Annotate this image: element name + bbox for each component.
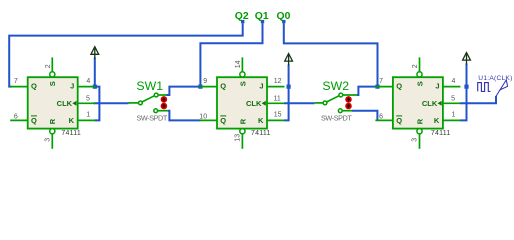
- SW1 pole contact: [139, 101, 143, 105]
- SW1 pole lead: [129, 102, 139, 104]
- svg-text:2: 2: [412, 64, 419, 68]
- svg-text:1: 1: [452, 111, 456, 118]
- U2:A pin K stub: [267, 119, 285, 121]
- power terminal for U1 (VCC arrow): [91, 47, 99, 59]
- flip-flop U1:A (74111): [375, 57, 460, 148]
- wire Q1 net: FF2 Q to terminal Q1: [200, 23, 262, 86]
- U1:B pin Q stub: [10, 86, 28, 88]
- U1:B pin K stub: [78, 119, 96, 121]
- wire SW2 bottom contact to FF3 Q-bar (pin 6): [352, 111, 377, 121]
- U1:A body: [393, 77, 443, 128]
- wire VCC to FF2 J/K: [284, 65, 289, 121]
- SW1 actuator up: [161, 96, 168, 103]
- U1:B pin S stub (active low): [51, 57, 53, 71]
- wire SW1 bottom contact to FF2 Q-bar (pin 10): [168, 111, 201, 121]
- svg-text:Q: Q: [220, 81, 226, 90]
- wire SW1 top contact to FF2 Q (pin 9): [167, 87, 201, 95]
- svg-text:R: R: [48, 118, 57, 124]
- svg-text:Q: Q: [220, 116, 226, 125]
- junction VCC-J FF2: [287, 85, 291, 89]
- wire Q0 net: FF3 Q to terminal Q0: [284, 23, 378, 86]
- SW2 top contact: [339, 93, 343, 97]
- switch SW1 (SW-SPDT): [129, 79, 168, 123]
- U2:A pin S stub (active low): [241, 57, 243, 71]
- power terminal for FF3 (VCC arrow): [463, 53, 471, 65]
- clock generator U1:A(CLK): [478, 75, 513, 96]
- svg-text:Q: Q: [31, 81, 37, 90]
- generator pointer triangle: [500, 80, 508, 90]
- svg-text:6: 6: [379, 113, 383, 120]
- svg-text:R: R: [415, 118, 424, 124]
- svg-text:S: S: [48, 81, 57, 86]
- U1:A pin CLK stub: [443, 102, 461, 104]
- svg-text:5: 5: [86, 95, 90, 102]
- junction Q1 net at FF2 pin 9: [198, 85, 202, 89]
- U1:B body: [28, 77, 78, 128]
- svg-text:CLK: CLK: [57, 99, 73, 108]
- svg-text:K: K: [69, 116, 75, 125]
- U1:A pin R stub (active low): [417, 129, 422, 134]
- SW2 actuator down: [345, 103, 352, 110]
- wire VCC to FF3 J/K: [460, 64, 467, 121]
- svg-text:Q0: Q0: [277, 11, 291, 22]
- svg-text:S: S: [415, 81, 424, 86]
- svg-text:74111: 74111: [61, 130, 80, 137]
- svg-text:Q: Q: [396, 81, 402, 90]
- flip-flop U1:B (74111): [10, 57, 95, 148]
- U1:A pin Q stub: [375, 86, 393, 88]
- junction VCC-J U1: [93, 85, 97, 89]
- svg-text:SW-SPDT: SW-SPDT: [137, 113, 168, 122]
- junction Q0 net at FF3 pin 7: [375, 85, 379, 89]
- wire FF3 CLK to generator: [460, 96, 496, 103]
- terminal Q0: [277, 11, 291, 23]
- SW2 pole lead: [315, 102, 323, 104]
- generator pointer line: [496, 90, 500, 97]
- svg-text:R: R: [238, 118, 247, 124]
- U2:A body: [217, 77, 267, 128]
- U2:A pin R stub (active low): [240, 129, 245, 134]
- junction VCC-J FF3: [464, 85, 468, 89]
- svg-text:Q2: Q2: [235, 11, 249, 22]
- svg-text:7: 7: [379, 78, 383, 85]
- svg-text:K: K: [258, 116, 264, 125]
- U1:A pin Q-bar stub: [375, 119, 393, 121]
- svg-text:SW1: SW1: [136, 79, 163, 93]
- generator square-wave glyph: [478, 83, 491, 92]
- svg-text:3: 3: [44, 138, 51, 142]
- svg-text:Q1: Q1: [255, 11, 269, 22]
- svg-text:6: 6: [14, 113, 18, 120]
- svg-text:J: J: [259, 81, 263, 90]
- wire Q2 net: FF1 Q to terminal Q2: [9, 23, 243, 86]
- SW2 lever (thrown up): [327, 96, 339, 102]
- svg-text:CLK: CLK: [422, 99, 438, 108]
- svg-text:J: J: [435, 81, 439, 90]
- SW1 lever (thrown up): [142, 96, 154, 102]
- svg-text:10: 10: [199, 113, 207, 120]
- terminal Q1: [255, 11, 269, 23]
- flip-flop U2:A (74111): [199, 57, 284, 148]
- SW2 actuator up: [345, 96, 352, 103]
- wire SW2 top contact to FF3 Q (pin 7): [357, 87, 378, 95]
- svg-text:74111: 74111: [251, 130, 270, 137]
- U1:B pin R stub (active low): [50, 129, 55, 134]
- U1:B pin Q-bar stub: [10, 119, 28, 121]
- U2:A pin Q stub: [200, 86, 218, 88]
- svg-text:3: 3: [412, 138, 419, 142]
- U1:A pin K stub: [443, 119, 461, 121]
- svg-text:5: 5: [451, 95, 455, 102]
- svg-text:7: 7: [14, 78, 18, 85]
- U1:A pin J stub: [443, 86, 461, 88]
- svg-text:Q: Q: [396, 116, 402, 125]
- wire U1 CLK to SW1 pole: [94, 102, 129, 104]
- svg-text:4: 4: [86, 78, 90, 85]
- svg-text:J: J: [70, 81, 74, 90]
- power terminal for FF2 (VCC arrow): [285, 54, 293, 66]
- U2:A pin CLK stub: [267, 102, 285, 104]
- svg-text:CLK: CLK: [246, 99, 262, 108]
- U2:A pin Q-bar stub: [200, 119, 218, 121]
- svg-text:4: 4: [452, 78, 456, 85]
- U1:B pin J stub: [78, 86, 96, 88]
- terminal Q2: [235, 11, 249, 23]
- SW2 pole contact: [323, 101, 327, 105]
- U1:B pin CLK stub: [78, 102, 96, 104]
- svg-text:14: 14: [235, 60, 242, 68]
- U2:A pin J stub: [267, 86, 285, 88]
- svg-text:S: S: [238, 81, 247, 86]
- svg-text:U1:A(CLK): U1:A(CLK): [478, 75, 512, 82]
- switch SW2 (SW-SPDT): [315, 79, 357, 123]
- svg-text:Q: Q: [31, 116, 37, 125]
- svg-text:1: 1: [86, 111, 90, 118]
- svg-text:SW2: SW2: [322, 79, 349, 93]
- wire FF2 CLK to SW2 pole: [284, 102, 315, 104]
- U1:A pin S stub (active low): [419, 57, 421, 71]
- svg-text:74111: 74111: [431, 130, 450, 137]
- U1:A CLK edge marker: [438, 101, 442, 106]
- svg-text:K: K: [434, 116, 440, 125]
- U2:A CLK edge marker: [262, 101, 266, 106]
- SW1 bottom contact: [154, 109, 158, 113]
- U1:B CLK edge marker: [72, 101, 76, 106]
- svg-text:SW-SPDT: SW-SPDT: [321, 113, 352, 122]
- svg-text:13: 13: [234, 134, 241, 142]
- SW2 bottom contact: [338, 109, 342, 113]
- wire VCC to U1 J/K: [95, 58, 100, 121]
- svg-text:9: 9: [203, 78, 207, 85]
- svg-text:2: 2: [45, 64, 52, 68]
- svg-text:15: 15: [274, 111, 282, 118]
- svg-text:12: 12: [274, 78, 282, 85]
- SW1 top contact: [154, 93, 158, 97]
- svg-text:11: 11: [274, 95, 281, 102]
- SW1 actuator down: [161, 103, 168, 110]
